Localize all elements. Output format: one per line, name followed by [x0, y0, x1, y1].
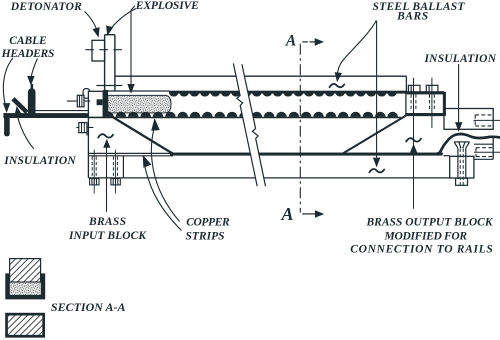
svg-text:BRASS: BRASS	[88, 216, 126, 228]
svg-text:INSULATION: INSULATION	[3, 155, 76, 167]
svg-text:INPUT BLOCK: INPUT BLOCK	[68, 230, 147, 242]
svg-text:CABLE: CABLE	[9, 35, 47, 47]
svg-text:A: A	[280, 204, 293, 224]
svg-text:EXPLOSIVE: EXPLOSIVE	[135, 0, 199, 12]
svg-text:STRIPS: STRIPS	[186, 230, 225, 242]
svg-text:COPPER: COPPER	[186, 217, 230, 229]
svg-text:INSULATION: INSULATION	[424, 53, 497, 65]
svg-text:BRASS OUTPUT BLOCK: BRASS OUTPUT BLOCK	[366, 217, 494, 229]
svg-text:MODIFIED FOR: MODIFIED FOR	[384, 230, 468, 242]
svg-text:BARS: BARS	[396, 11, 428, 23]
svg-text:CONNECTION TO RAILS: CONNECTION TO RAILS	[350, 244, 493, 256]
svg-text:DETONATOR: DETONATOR	[10, 1, 82, 13]
svg-text:HEADERS: HEADERS	[1, 48, 55, 60]
svg-text:SECTION A-A: SECTION A-A	[51, 300, 126, 314]
svg-text:A: A	[285, 33, 296, 50]
